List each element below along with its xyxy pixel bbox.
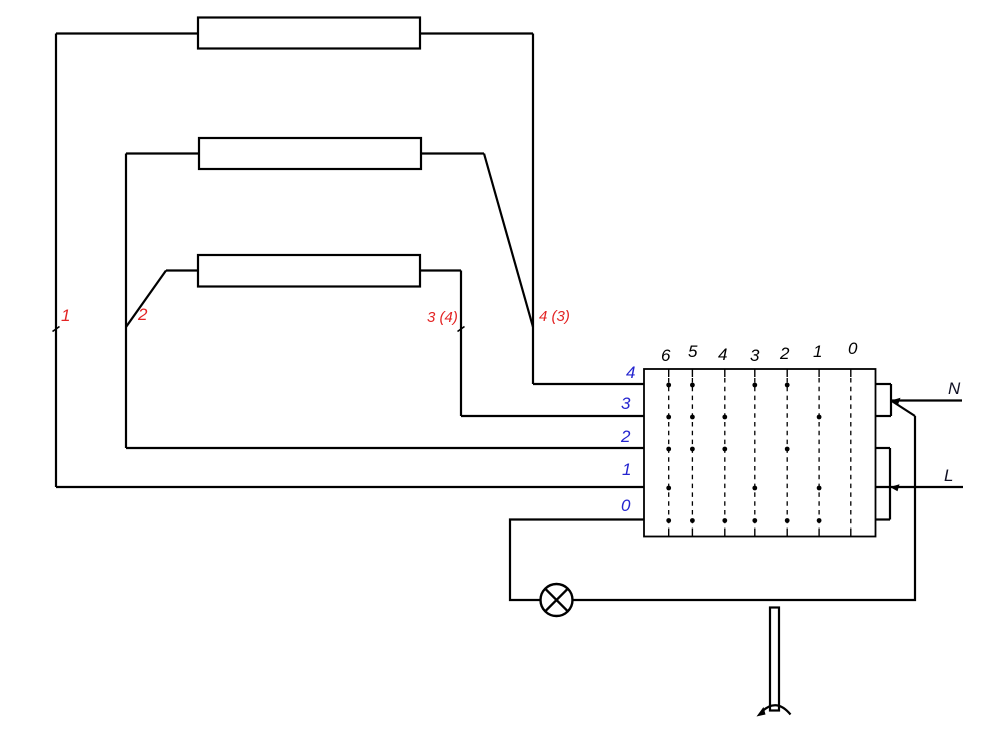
svg-text:4: 4 — [718, 345, 727, 364]
wire N line — [891, 399, 962, 401]
wire EK3 right lead — [420, 269, 461, 271]
wire net 3 vertical — [460, 271, 462, 417]
svg-text:L: L — [944, 466, 953, 485]
wire bridge rows 4-3 bar — [890, 384, 892, 416]
svg-text:2: 2 — [779, 344, 790, 363]
wire lamp to vertical riser — [573, 416, 916, 600]
wire net 3 to switch row 3 — [461, 415, 644, 417]
rotation arrow head — [757, 707, 766, 717]
resistor EK2 (middle heating element) — [199, 138, 421, 169]
svg-text:2: 2 — [620, 427, 631, 446]
svg-text:0: 0 — [848, 339, 858, 358]
node terminal tick net 3 — [458, 327, 465, 332]
wire net 4 to switch row 4 — [533, 383, 644, 385]
contact dots row 0 — [666, 518, 821, 523]
wire bridge rows 4-3 right stub lower — [876, 415, 892, 417]
svg-text:3: 3 — [621, 394, 631, 413]
svg-text:1: 1 — [622, 460, 631, 479]
svg-text:N: N — [948, 379, 961, 398]
wire bridge rows 2-0 right stub upper — [876, 447, 891, 449]
svg-text:1: 1 — [61, 306, 70, 325]
svg-text:2: 2 — [137, 305, 148, 324]
wire N wiper diagonal — [891, 401, 915, 417]
contact dots row 2 — [666, 447, 789, 452]
wire net 2 vertical — [125, 154, 127, 449]
switch column contact ticks bottom — [669, 529, 851, 537]
wire net 2 to switch row 2 — [126, 447, 644, 449]
switch column dashed cam lines — [669, 378, 851, 528]
wire bridge rows 2-0 right stub lower — [876, 518, 891, 520]
wire EK3 left lead — [166, 269, 198, 271]
contact dots row 1 — [666, 486, 821, 491]
svg-text:1: 1 — [813, 342, 822, 361]
rotation arc arrow — [761, 705, 791, 714]
svg-text:4: 4 — [626, 363, 635, 382]
wire EK2 diagonal to net 4 — [484, 154, 533, 328]
wire L line from row 1 — [876, 486, 964, 488]
svg-text:6: 6 — [661, 346, 671, 365]
wire EK2 right lead — [421, 152, 484, 154]
wire bridge rows 2-0 bar — [889, 448, 891, 520]
wire EK1 left lead — [56, 32, 198, 34]
switch column contact ticks top — [669, 369, 851, 377]
junction arrow at N bridge — [891, 398, 901, 405]
svg-text:0: 0 — [621, 496, 631, 515]
wire EK2 left lead — [126, 152, 199, 154]
wire EK3 diagonal to net 2 — [126, 271, 166, 328]
switch shaft (rotary knob stem) — [770, 608, 779, 711]
wire EK1 right lead — [420, 32, 533, 34]
contact dots row 4 — [666, 383, 789, 388]
wire net 1 vertical — [55, 34, 57, 488]
wire net 4 vertical — [532, 34, 534, 385]
wire bridge rows 4-3 right stub upper — [876, 383, 892, 385]
resistor EK3 (bottom heating element) — [198, 255, 420, 287]
svg-text:3 (4): 3 (4) — [427, 309, 458, 326]
svg-text:3: 3 — [750, 346, 760, 365]
contact dots row 3 — [666, 415, 821, 420]
svg-text:4 (3): 4 (3) — [539, 308, 570, 325]
wire switch row 0 out to lamp — [510, 520, 644, 601]
svg-text:5: 5 — [688, 342, 698, 361]
resistor EK1 (top heating element) — [198, 18, 420, 49]
lamp HL1 (indicator, circle with cross) — [541, 584, 573, 616]
junction arrow at L bridge — [890, 484, 900, 491]
switch S1 body (contact matrix box) — [644, 369, 876, 537]
wire net 1 to switch row 1 — [56, 486, 644, 488]
node terminal tick net 1 — [53, 327, 60, 332]
